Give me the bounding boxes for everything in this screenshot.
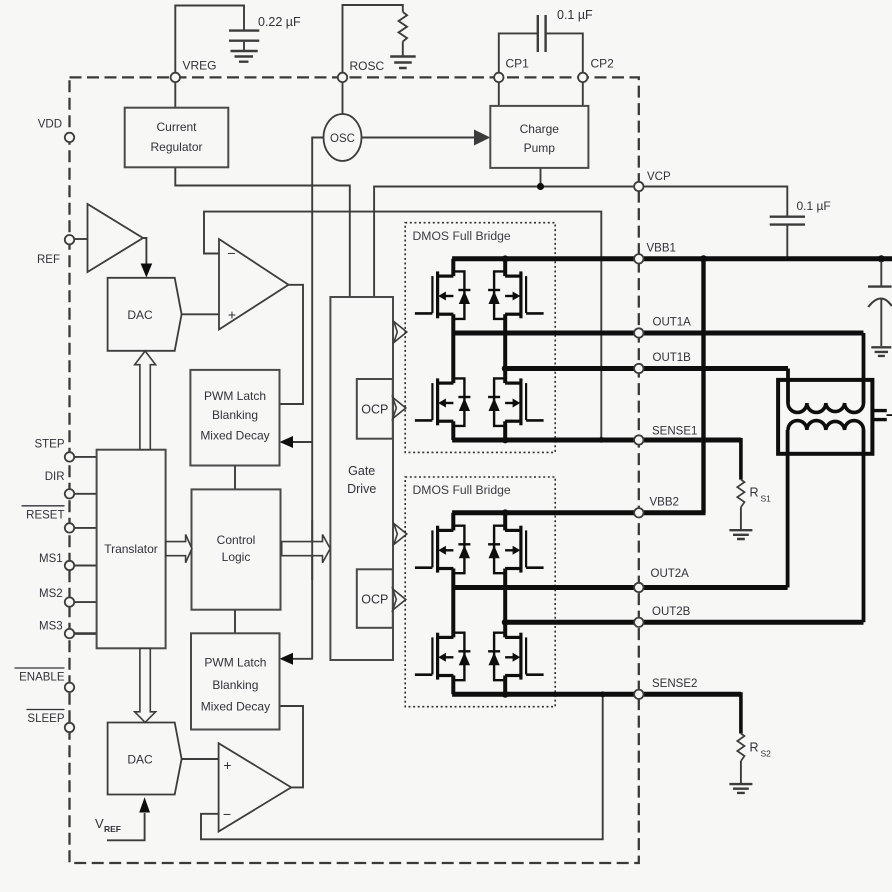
svg-text:DAC: DAC [127, 308, 153, 322]
svg-text:PWM Latch: PWM Latch [204, 389, 266, 403]
svg-text:DMOS Full Bridge: DMOS Full Bridge [413, 229, 511, 243]
svg-text:Translator: Translator [104, 542, 158, 556]
svg-text:MS3: MS3 [39, 621, 63, 633]
svg-text:ENABLE: ENABLE [19, 672, 65, 684]
svg-text:VBB1: VBB1 [647, 243, 676, 255]
svg-text:S2: S2 [761, 749, 772, 759]
svg-text:VDD: VDD [38, 119, 62, 131]
svg-text:Gate: Gate [348, 464, 375, 478]
svg-text:REF: REF [37, 254, 60, 266]
svg-text:R: R [750, 486, 759, 500]
svg-text:CP2: CP2 [591, 57, 615, 71]
svg-text:MS2: MS2 [39, 588, 63, 600]
svg-text:Mixed Decay: Mixed Decay [201, 700, 270, 714]
svg-text:V: V [95, 816, 104, 831]
svg-text:R: R [750, 741, 759, 755]
svg-text:Regulator: Regulator [150, 140, 202, 154]
svg-text:DIR: DIR [45, 471, 65, 483]
svg-text:0.1 µF: 0.1 µF [557, 8, 593, 22]
svg-text:−: − [223, 806, 231, 822]
svg-text:Control: Control [217, 533, 256, 547]
svg-text:Logic: Logic [222, 550, 251, 564]
svg-text:DMOS Full Bridge: DMOS Full Bridge [413, 483, 511, 497]
svg-text:OUT2B: OUT2B [652, 606, 691, 618]
svg-text:S1: S1 [761, 494, 772, 504]
svg-text:STEP: STEP [34, 439, 64, 451]
svg-text:REF: REF [104, 824, 121, 834]
svg-text:SLEEP: SLEEP [27, 713, 64, 725]
svg-text:Blanking: Blanking [212, 678, 258, 692]
svg-text:VREG: VREG [183, 59, 217, 73]
svg-text:MS1: MS1 [39, 553, 63, 565]
svg-text:Drive: Drive [347, 482, 376, 496]
svg-text:ROSC: ROSC [350, 59, 385, 73]
svg-text:0.22 µF: 0.22 µF [258, 15, 301, 29]
svg-text:PWM Latch: PWM Latch [204, 656, 266, 670]
svg-text:VCP: VCP [647, 171, 671, 183]
svg-text:OCP: OCP [361, 403, 388, 417]
svg-text:RESET: RESET [26, 510, 64, 522]
svg-text:OUT2A: OUT2A [651, 568, 690, 580]
svg-text:OSC: OSC [330, 133, 355, 145]
svg-text:OUT1A: OUT1A [653, 317, 692, 329]
svg-text:+: + [223, 757, 231, 773]
svg-text:SENSE2: SENSE2 [652, 678, 697, 690]
svg-text:Charge: Charge [520, 122, 560, 136]
svg-text:Mixed Decay: Mixed Decay [200, 429, 269, 443]
svg-text:0.1 µF: 0.1 µF [797, 199, 831, 213]
svg-text:Current: Current [156, 120, 197, 134]
svg-text:OUT1B: OUT1B [653, 352, 692, 364]
svg-text:OCP: OCP [361, 593, 388, 607]
svg-text:VBB2: VBB2 [650, 497, 679, 509]
svg-text:−: − [227, 245, 235, 261]
svg-text:DAC: DAC [127, 753, 153, 767]
svg-text:Blanking: Blanking [212, 408, 258, 422]
svg-text:Pump: Pump [524, 141, 556, 155]
svg-text:CP1: CP1 [506, 57, 530, 71]
svg-text:SENSE1: SENSE1 [652, 426, 697, 438]
svg-text:+: + [228, 307, 236, 323]
